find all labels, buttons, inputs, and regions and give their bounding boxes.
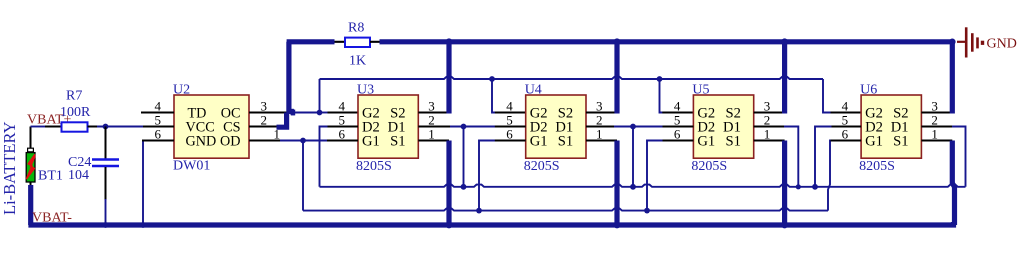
svg-text:R8: R8: [348, 21, 364, 36]
svg-text:8205S: 8205S: [356, 159, 392, 174]
node G1 bus junction U4: [476, 208, 482, 214]
U5 pin text G2: [697, 105, 715, 121]
resistor R8: [345, 38, 370, 47]
battery BT1 lightning symbol: [27, 155, 35, 179]
node D junction D low: [812, 184, 818, 190]
svg-text:3: 3: [428, 99, 435, 114]
wire OC riser U3: [319, 79, 321, 113]
svg-text:2: 2: [261, 113, 268, 128]
label 104: [68, 168, 89, 183]
svg-text:2: 2: [764, 113, 771, 128]
svg-text:4: 4: [842, 99, 849, 114]
U3 pin text G2: [362, 105, 380, 121]
U4 pin 1 wire (S1): [586, 139, 617, 141]
svg-text:U5: U5: [692, 83, 709, 98]
label C24: [68, 155, 91, 170]
node D junction A: [461, 124, 467, 130]
wire CS riser to R8: [277, 42, 294, 127]
wire U3 D2 loop: [320, 127, 359, 187]
junction U2 GND rail: [140, 222, 146, 228]
label 100R: [60, 105, 91, 120]
junction C24 rail: [103, 222, 109, 228]
svg-text:100R: 100R: [60, 105, 91, 120]
U3 pin 4 wire (G2): [320, 112, 359, 114]
U4 pin number 1: [596, 127, 603, 142]
junction S2 rail U3: [446, 38, 453, 45]
U3 pin text D1: [388, 119, 406, 135]
label BT1: [38, 169, 63, 184]
svg-text:6: 6: [842, 127, 849, 142]
svg-text:6: 6: [339, 127, 346, 142]
node OD junction: [300, 138, 306, 144]
U5 pin number 3: [764, 99, 771, 114]
svg-text:3: 3: [764, 99, 771, 114]
U2 pin number 5: [155, 113, 162, 128]
svg-text:2: 2: [596, 113, 603, 128]
svg-text:GND: GND: [186, 133, 217, 149]
label GND: [987, 37, 1017, 52]
wire top rail main segment: [380, 39, 953, 44]
junction S2 rail U4: [614, 38, 621, 45]
node rail corner: [949, 39, 956, 46]
svg-text:4: 4: [506, 99, 513, 114]
svg-text:G1: G1: [865, 133, 883, 149]
svg-text:3: 3: [261, 99, 268, 114]
U6 pin 3 wire (S2): [921, 111, 952, 113]
wire S2 riser U4: [614, 42, 619, 114]
U6 pin text S1: [893, 133, 908, 149]
wire VCC node to C24: [105, 127, 107, 159]
svg-text:6: 6: [506, 127, 513, 142]
node OC U4 junction: [489, 76, 495, 82]
svg-text:3: 3: [596, 99, 603, 114]
wire top rail left segment: [287, 39, 335, 44]
U3 pin number 4: [339, 99, 346, 114]
U2 pin 6 wire (GND): [142, 139, 174, 141]
wire R8 left lead: [335, 41, 346, 43]
svg-text:G1: G1: [697, 133, 715, 149]
power symbol GND: [957, 27, 984, 57]
U3 pin number 5: [339, 113, 346, 128]
svg-text:8205S: 8205S: [524, 159, 560, 174]
U2 pin text OC: [221, 105, 241, 121]
svg-text:1: 1: [428, 127, 435, 142]
svg-text:3: 3: [931, 99, 938, 114]
U2 pin 1 wire (OD): [249, 139, 280, 141]
svg-text:4: 4: [674, 99, 681, 114]
node OC U3 junction: [317, 110, 323, 116]
node OC U5 junction: [657, 76, 663, 82]
U6 pin text D2: [865, 119, 883, 135]
wire R7 to VCC node: [88, 126, 144, 128]
U5 pin text S2: [725, 105, 740, 121]
svg-text:BT1: BT1: [38, 169, 63, 184]
U5 pin 1 wire (S1): [754, 139, 785, 141]
battery negative lead: [30, 182, 32, 225]
label U4: [525, 83, 542, 98]
U6 pin text S2: [893, 105, 908, 121]
U4 pin text S1: [558, 133, 573, 149]
label R7: [66, 89, 82, 104]
wire OC drop U4: [492, 79, 526, 113]
wire G1 bus: [303, 208, 828, 210]
U5 pin number 1: [764, 127, 771, 142]
capacitor C24: [92, 160, 119, 167]
wire U5 D1 drop: [754, 127, 799, 187]
U4 pin number 6: [506, 127, 513, 142]
svg-text:5: 5: [155, 113, 162, 128]
MOSFET U4 body: [526, 95, 586, 158]
wire OC over-route: [320, 77, 824, 79]
U3 pin text D2: [362, 119, 380, 135]
wire S2 riser U3: [446, 42, 451, 114]
svg-text:1: 1: [596, 127, 603, 142]
svg-text:U4: U4: [525, 83, 542, 98]
svg-text:6: 6: [674, 127, 681, 142]
U2 pin text GND: [186, 133, 217, 149]
label VBAT-: [32, 211, 72, 226]
svg-text:U3: U3: [357, 83, 374, 98]
U6 pin 1 wire (S1): [921, 139, 952, 141]
node D junction A low: [461, 184, 467, 190]
svg-text:1: 1: [764, 127, 771, 142]
svg-text:5: 5: [842, 113, 849, 128]
U4 pin 3 wire (S2): [586, 111, 617, 113]
junction S2 rail U5: [781, 38, 788, 45]
svg-text:Li-BATTERY: Li-BATTERY: [0, 121, 19, 215]
wire G1 riser U6: [828, 141, 861, 211]
U5 pin text D1: [723, 119, 741, 135]
label Li-BATTERY: [0, 121, 19, 215]
svg-text:G1: G1: [530, 133, 548, 149]
U6 pin number 1: [931, 127, 938, 142]
svg-text:8205S: 8205S: [859, 159, 895, 174]
label 8205S U6: [859, 159, 895, 174]
wire D drop B: [632, 127, 634, 187]
svg-text:6: 6: [155, 127, 162, 142]
U4 pin text S2: [558, 105, 573, 121]
svg-text:G1: G1: [362, 133, 380, 149]
U3 pin 1 wire (S1): [418, 139, 449, 141]
U2 pin 2 wire (CS): [249, 125, 277, 127]
junction S1 rail U3: [446, 222, 453, 229]
node D junction B: [630, 124, 636, 130]
U5 pin text G1: [697, 133, 715, 149]
U2 pin number 4: [155, 99, 162, 114]
wire OD drop: [302, 141, 304, 211]
U4 pin number 4: [506, 99, 513, 114]
U2 pin text VCC: [186, 119, 215, 135]
wire S1 drop U3: [446, 141, 451, 226]
wire D under-route: [320, 185, 966, 187]
node VCC junction: [103, 124, 109, 130]
svg-text:U6: U6: [860, 83, 877, 98]
wire U2 GND to rail: [142, 141, 144, 226]
U2 pin number 6: [155, 127, 162, 142]
node D junction C low: [796, 184, 801, 189]
U6 pin text G1: [865, 133, 883, 149]
svg-text:GND: GND: [987, 37, 1017, 52]
svg-text:4: 4: [155, 99, 162, 114]
battery BT1 body: [26, 153, 35, 182]
svg-text:S1: S1: [893, 133, 908, 149]
node G1 bus junction U5: [644, 208, 650, 214]
svg-text:8205S: 8205S: [691, 159, 727, 174]
U5 pin number 5: [674, 113, 681, 128]
label U2: [173, 83, 190, 98]
label U3: [357, 83, 374, 98]
U6 pin number 4: [842, 99, 849, 114]
U2 pin 5 wire (VCC): [143, 125, 174, 127]
wire S1 drop U6: [952, 141, 954, 226]
wire OC net U2 to U3: [291, 110, 320, 116]
wire OC drop U5: [660, 79, 694, 113]
svg-text:S1: S1: [390, 133, 405, 149]
U4 pin text G2: [530, 105, 548, 121]
U2 pin 4 wire (TD): [141, 111, 174, 113]
label 8205S U5: [691, 159, 727, 174]
wire OD U2 to U3 G1: [280, 140, 358, 142]
wire G1 riser U5: [647, 141, 693, 211]
wire VBAT- bottom rail: [28, 222, 953, 225]
battery BT1 terminal: [28, 148, 34, 152]
U3 pin number 3: [428, 99, 435, 114]
U2 pin text TD: [188, 105, 207, 121]
U6 pin text D1: [891, 119, 909, 135]
svg-text:U2: U2: [173, 83, 190, 98]
U6 pin number 3: [931, 99, 938, 114]
U2 pin number 1: [274, 127, 281, 142]
U6 pin number 5: [842, 113, 849, 128]
svg-text:2: 2: [428, 113, 435, 128]
wire D drop A: [463, 127, 465, 187]
wire R8 right lead: [370, 41, 380, 43]
MOSFET U3 body: [358, 95, 418, 158]
U3 pin number 6: [339, 127, 346, 142]
U5 pin 3 wire (S2): [754, 111, 785, 113]
label 8205S U3: [356, 159, 392, 174]
svg-text:1: 1: [931, 127, 938, 142]
wire D link U4-U5: [586, 125, 693, 127]
U5 pin text D2: [697, 119, 715, 135]
svg-text:5: 5: [674, 113, 681, 128]
wire D link U3-U4: [418, 125, 525, 127]
U5 pin number 6: [674, 127, 681, 142]
U2 pin number 2: [261, 113, 268, 128]
battery positive wire: [31, 127, 62, 149]
wire OC drop U6: [823, 79, 861, 113]
svg-text:4: 4: [339, 99, 346, 114]
svg-text:S1: S1: [725, 133, 740, 149]
U4 pin number 5: [506, 113, 513, 128]
U3 pin text S1: [390, 133, 405, 149]
wire S2 riser U5: [782, 42, 787, 114]
MOSFET U6 body: [861, 95, 921, 158]
svg-text:1K: 1K: [349, 54, 366, 69]
junction S1 rail U5: [781, 222, 788, 229]
junction S1 rail U4: [614, 222, 621, 229]
svg-text:104: 104: [68, 168, 89, 183]
U5 pin text S1: [725, 133, 740, 149]
label U6: [860, 83, 877, 98]
U2 pin text OD: [220, 133, 241, 149]
U2 pin text CS: [223, 119, 240, 135]
U3 pin number 1: [428, 127, 435, 142]
U3 pin number 2: [428, 113, 435, 128]
U4 pin text G1: [530, 133, 548, 149]
U2 pin 3 wire (OC): [249, 111, 287, 113]
U6 pin text G2: [865, 105, 883, 121]
svg-text:R7: R7: [66, 89, 82, 104]
U4 pin text D1: [555, 119, 573, 135]
wire S1 drop U4: [614, 141, 619, 226]
U3 pin text S2: [390, 105, 405, 121]
IC U2 body: [174, 95, 249, 158]
U6 pin number 6: [842, 127, 849, 142]
label U5: [692, 83, 709, 98]
U3 pin text G1: [362, 133, 380, 149]
svg-text:2: 2: [931, 113, 938, 128]
svg-text:DW01: DW01: [173, 159, 210, 174]
wire U6 D1 drop: [921, 127, 965, 187]
label DW01: [173, 159, 210, 174]
label 8205S U4: [524, 159, 560, 174]
svg-text:5: 5: [506, 113, 513, 128]
U6 pin number 2: [931, 113, 938, 128]
wire S2 riser U6 (rail corner): [950, 42, 955, 114]
U4 pin text D2: [530, 119, 548, 135]
node D junction B low: [630, 184, 636, 190]
svg-text:S1: S1: [558, 133, 573, 149]
wire S1 drop U5: [782, 141, 787, 226]
label R8: [348, 21, 364, 36]
U2 pin number 3: [261, 99, 268, 114]
resistor R7: [62, 122, 88, 131]
wire U6 D2 drop: [815, 127, 861, 187]
label 1K: [349, 54, 366, 69]
label VBAT+: [27, 113, 72, 128]
svg-text:5: 5: [339, 113, 346, 128]
U4 pin number 2: [596, 113, 603, 128]
wire C24 to VBAT- rail: [105, 167, 107, 225]
U4 pin number 3: [596, 99, 603, 114]
U5 pin number 4: [674, 99, 681, 114]
MOSFET U5 body: [693, 95, 753, 158]
U3 pin 3 wire (S2): [418, 111, 449, 113]
svg-text:OD: OD: [220, 133, 241, 149]
wire G1 riser U4: [479, 141, 526, 211]
U5 pin number 2: [764, 113, 771, 128]
